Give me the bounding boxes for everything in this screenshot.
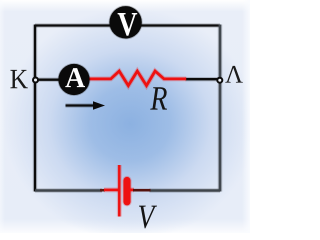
wire: bottom side, left segment to battery <box>35 188 102 193</box>
resistor value label R <box>150 87 167 109</box>
node Lambda: open terminal circle <box>217 78 222 83</box>
ammeter letter A <box>65 68 85 87</box>
wire: bottom side, right segment from battery <box>150 188 221 193</box>
ammeter U-A: black circle body <box>58 64 89 95</box>
wire: left side of loop <box>33 25 37 192</box>
node K: open terminal circle <box>33 78 38 83</box>
voltmeter letter V <box>118 13 138 36</box>
wire: middle branch, resistor to node Lambda <box>186 77 220 81</box>
label K <box>10 70 27 88</box>
wire: right side of loop <box>218 25 223 192</box>
battery BT1: short thick plate <box>122 181 131 202</box>
resistor R1: red leads and zigzag <box>89 71 186 86</box>
current direction arrow <box>66 101 106 110</box>
battery BT1: right red stub with dark blend <box>130 187 151 192</box>
label Lambda <box>225 66 243 83</box>
battery BT1: long thin plate <box>117 165 122 217</box>
wire: middle branch, node K to ammeter <box>36 77 60 81</box>
voltmeter U-V: black circle body <box>109 6 141 38</box>
battery value label V <box>139 206 157 229</box>
wire: top side of loop <box>35 23 220 27</box>
battery BT1: left red stub with dark blend <box>100 189 119 192</box>
